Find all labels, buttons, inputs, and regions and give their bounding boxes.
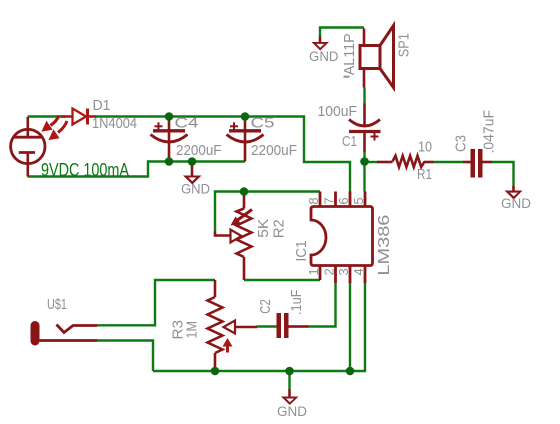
potentiometer R2 — [215, 192, 252, 281]
svg-text:U$1: U$1 — [47, 296, 67, 313]
capacitor C1 — [349, 104, 381, 153]
svg-text:GND: GND — [277, 404, 307, 419]
wire C2 to R3 wiper — [257, 325, 278, 327]
wire speaker to C1 — [363, 88, 365, 105]
svg-text:AL11P: AL11P — [341, 33, 358, 75]
ground GND supply — [181, 162, 210, 197]
svg-text:10: 10 — [418, 139, 432, 156]
svg-text:1M: 1M — [184, 321, 201, 339]
wire V+ top rail — [28, 117, 351, 192]
wire pin 1 to R2 bottom — [244, 279, 320, 281]
svg-text:1N4004: 1N4004 — [92, 115, 137, 132]
junction C4 top — [165, 112, 174, 121]
potentiometer R3 — [208, 280, 258, 371]
junction R2 top — [240, 187, 249, 196]
wire speaker to GND — [320, 28, 364, 37]
speaker SP1 — [360, 26, 394, 88]
svg-text:5: 5 — [351, 197, 366, 204]
capacitor C5 — [227, 117, 264, 162]
svg-text:1: 1 — [306, 268, 321, 275]
wire C3 to GND — [492, 162, 514, 187]
svg-text:2200uF: 2200uF — [251, 142, 297, 159]
svg-text:100uF: 100uF — [318, 103, 358, 120]
svg-text:7: 7 — [322, 197, 337, 204]
pin 1 — [319, 266, 322, 281]
svg-text:D1: D1 — [93, 97, 111, 114]
svg-text:GND: GND — [181, 182, 210, 197]
svg-text:LM386: LM386 — [376, 214, 393, 275]
wire output node to R1 — [365, 161, 378, 163]
junction output node — [360, 157, 369, 166]
capacitor C4 — [151, 117, 188, 162]
svg-text:2: 2 — [322, 268, 337, 275]
svg-text:SP1: SP1 — [396, 33, 413, 57]
pin 8 — [319, 192, 322, 207]
svg-text:IC1: IC1 — [293, 241, 310, 262]
audio jack U$1 — [31, 321, 98, 346]
svg-text:C3: C3 — [453, 135, 470, 152]
wire pin 3 to ground rail — [349, 283, 351, 371]
wire battery negative rail — [28, 162, 246, 177]
junction ground rail tap — [285, 367, 294, 376]
ground GND bottom — [277, 371, 307, 419]
svg-text:C1: C1 — [342, 133, 357, 150]
pin 7 — [334, 192, 337, 207]
svg-text:5K: 5K — [255, 219, 272, 238]
pin 2 — [334, 266, 337, 284]
svg-text:C4: C4 — [175, 115, 199, 132]
svg-text:8: 8 — [306, 197, 321, 204]
svg-text:R2: R2 — [271, 219, 288, 238]
pin 5 — [364, 192, 367, 207]
label AL11P underline — [344, 76, 350, 78]
wire C1 to pin 5 — [363, 152, 365, 192]
diode D1 — [61, 109, 96, 125]
svg-text:C5: C5 — [251, 115, 275, 132]
junction C5 top — [241, 112, 250, 121]
pin 6 — [349, 192, 352, 207]
pin 3 — [349, 266, 352, 284]
svg-text:6: 6 — [336, 197, 351, 204]
capacitor C2 — [277, 313, 309, 338]
wire pin 2 to C2 — [309, 283, 336, 327]
wire R1 to C3 — [434, 161, 464, 163]
svg-text:.1uF: .1uF — [288, 290, 305, 316]
op-amp IC1 LM386 body — [311, 207, 373, 266]
resistor R1 — [377, 156, 434, 167]
arrows annotation — [41, 116, 67, 141]
svg-text:GND: GND — [501, 196, 531, 211]
svg-text:3: 3 — [336, 268, 351, 275]
junction supply ground tap — [188, 157, 197, 166]
svg-text:2200uF: 2200uF — [176, 142, 222, 159]
junction C4 bottom — [165, 157, 174, 166]
capacitor C3 — [463, 149, 492, 178]
svg-text:C2: C2 — [257, 299, 274, 314]
wire ground rail — [153, 283, 365, 371]
wire jack tip to R3 top — [97, 280, 215, 325]
junction R3 bottom — [211, 367, 220, 376]
svg-text:GND: GND — [309, 49, 339, 64]
wire jack sleeve to ground rail — [97, 341, 153, 372]
ground GND right — [501, 186, 531, 211]
ground GND speaker — [309, 37, 339, 65]
wire R2 wiper to pin 8 — [215, 192, 320, 233]
junction pin 3 ground — [346, 367, 355, 376]
svg-text:4: 4 — [351, 268, 366, 275]
svg-text:R1: R1 — [417, 166, 432, 183]
pin 4 — [364, 266, 367, 284]
battery G1 9VDC — [11, 117, 45, 177]
svg-text:9VDC 100mA: 9VDC 100mA — [41, 160, 129, 180]
svg-text:.047uF: .047uF — [481, 110, 498, 154]
